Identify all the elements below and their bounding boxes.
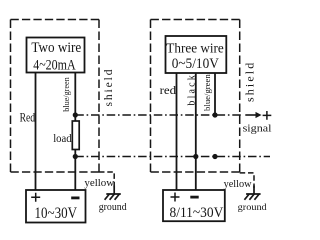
signal + terminal mark [263,111,272,120]
shield-to-ground stub (left, dashed) [99,172,114,188]
signal+ arrow [245,114,256,116]
svg-text:4~20mA: 4~20mA [33,57,76,73]
shield cable screen border (two-wire circuit) [11,20,100,173]
minus terminal (left supply) [71,196,79,199]
supply box "10~30V" (left circuit) [26,190,86,223]
wire blue/green lower segment (left circuit) [74,150,76,191]
svg-text:Red: Red [20,109,36,124]
signal+ line (dash-dot) [75,114,243,116]
wire blue/green upper segment (left circuit) [74,73,76,122]
svg-text:signal: signal [243,124,272,135]
svg-text:red: red [160,83,177,97]
ground symbol (right) [246,186,261,195]
transmitter box U1 "Two wire 4~20mA" [27,38,85,73]
shield cable screen border (three-wire circuit) [151,20,240,173]
node: blue/green to signal+ line [73,112,78,117]
plus terminal (right supply) [171,193,180,202]
node: black wire to signal- line [193,154,198,159]
svg-text:ground: ground [238,203,267,213]
wire red (right circuit) [176,73,178,190]
supply box "8/11~30V" (right circuit) [163,190,225,221]
wire red (left circuit, + supply) [35,73,37,190]
svg-text:ground: ground [99,202,127,213]
wire black (right circuit) [195,73,197,190]
node: blue/green to signal+ line [212,112,217,117]
svg-text:10~30V: 10~30V [35,205,78,222]
shield-to-ground stub (right, dashed) [240,173,254,188]
minus terminal (right supply) [190,196,198,199]
svg-text:Two wire: Two wire [31,40,81,56]
svg-text:shield: shield [103,69,115,106]
svg-text:yellow: yellow [224,179,253,190]
wire blue/green (right circuit) [214,73,216,115]
svg-text:load: load [53,131,71,145]
svg-text:Three wire: Three wire [166,40,224,55]
svg-text:blue/green: blue/green [61,77,71,112]
node on signal- line at x=215 [212,154,217,159]
signal- line (dash-dot) [75,156,270,158]
svg-text:blue/green: blue/green [202,73,212,110]
node: load bottom to signal- line [73,154,78,159]
plus terminal (left supply) [31,193,40,202]
svg-text:shield: shield [243,63,257,102]
svg-text:0~5/10V: 0~5/10V [172,56,220,72]
ground symbol (left) [106,186,121,195]
svg-text:yellow: yellow [84,178,115,189]
svg-text:8/11~30V: 8/11~30V [170,205,224,221]
transmitter box U2 "Three wire 0~5/10V" [166,36,227,73]
svg-text:black: black [186,75,197,105]
resistor load [72,121,79,150]
